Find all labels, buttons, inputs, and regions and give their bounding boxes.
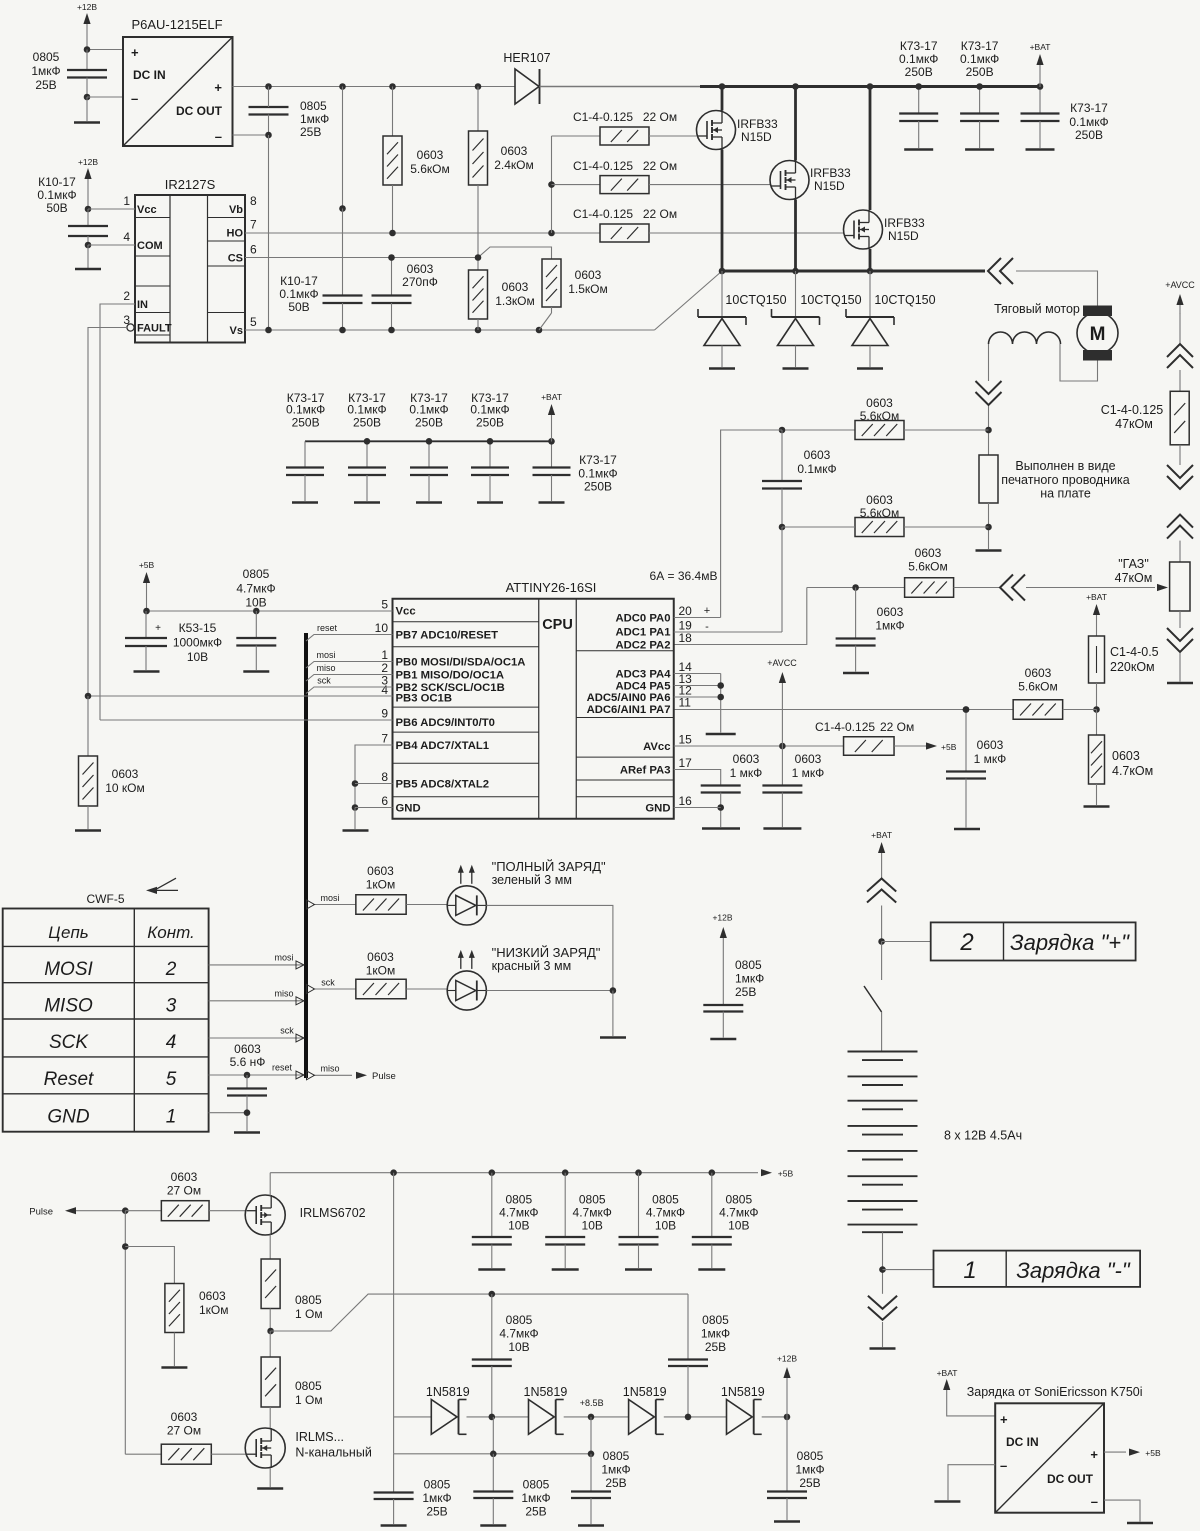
svg-text:+12В: +12В: [77, 2, 97, 12]
wire pin20 +: [674, 617, 721, 619]
svg-text:–: –: [215, 129, 222, 144]
svg-text:0.1мкФ: 0.1мкФ: [409, 403, 448, 417]
FAULT output circle: [127, 324, 134, 331]
svg-text:1мкФ: 1мкФ: [31, 64, 60, 78]
svg-text:0603: 0603: [804, 448, 831, 462]
wire charger in+: [947, 1395, 996, 1416]
ground (rail cap #3): [1026, 148, 1055, 151]
svg-text:-: -: [705, 621, 709, 633]
shunt resistor (pcb trace): [979, 455, 1130, 503]
wire pot down: [1179, 611, 1181, 628]
node LED gnd: [610, 987, 617, 994]
capacitor K73-17 0.1uF 250V (bank #2): [347, 391, 386, 501]
node Vcc arrow: [143, 608, 150, 615]
wire LED2 to gnd: [486, 990, 613, 992]
wire Q4 source up: [269, 1173, 271, 1196]
svg-text:10CTQ150: 10CTQ150: [800, 293, 861, 307]
wire Vs diagonal to source bus: [655, 271, 723, 330]
wire throttle pot: [1026, 587, 1155, 589]
ground (PA tie): [706, 733, 736, 736]
ground (bank #5): [539, 501, 565, 504]
svg-text:0603: 0603: [977, 738, 1004, 752]
svg-text:1мкФ: 1мкФ: [300, 112, 329, 126]
potentiometer GAZ 47kOhm body: [1170, 562, 1190, 611]
wire pump drive: [271, 1294, 688, 1331]
svg-text:MISO: MISO: [44, 996, 93, 1017]
wire PB3 net: [88, 695, 393, 697]
power +12V (pump out): [777, 1354, 797, 1417]
svg-text:8: 8: [250, 194, 257, 208]
node DC OUT- cap: [265, 132, 272, 139]
connector CWF-5 table: [3, 909, 209, 1132]
svg-text:mosi: mosi: [316, 650, 335, 660]
svg-text:6А = 36.4мВ: 6А = 36.4мВ: [650, 569, 718, 583]
svg-text:0603: 0603: [915, 546, 942, 560]
node divider: [1093, 706, 1100, 713]
diode HER107: [503, 51, 550, 104]
svg-text:22 Ом: 22 Ом: [643, 159, 677, 173]
capacitor 0805 1uF 25V (smooth C): [571, 1449, 631, 1524]
capacitor K73-17 0.1uF 250V (rail #3): [1021, 87, 1060, 149]
node Vs bootstrap: [339, 327, 346, 334]
wire D1D2 tap: [492, 1417, 494, 1454]
capacitor 0805 1uF 25V (pump2): [668, 1294, 730, 1417]
svg-text:1: 1: [381, 648, 388, 662]
svg-text:0.1мкФ: 0.1мкФ: [1069, 115, 1108, 129]
capacitor 0603 1uF (throttle): [836, 588, 905, 672]
svg-text:27 Ом: 27 Ом: [167, 1184, 201, 1198]
svg-text:0.1мкФ: 0.1мкФ: [279, 287, 318, 301]
resistor C1-4-0.125 47kOhm: [1101, 391, 1189, 445]
svg-text:0603: 0603: [199, 1289, 226, 1303]
svg-text:0805: 0805: [797, 1449, 824, 1463]
node D1-D2: [489, 1414, 496, 1421]
svg-text:0603: 0603: [733, 752, 760, 766]
arrow Pulse in (bottom): [29, 1207, 125, 1218]
wire +12V to DC IN+: [87, 49, 123, 51]
LED green (full charge): [447, 865, 486, 925]
DC-DC converter (charger K750i): [995, 1403, 1104, 1512]
svg-text:+12В: +12В: [712, 913, 732, 923]
node +12V out: [784, 1414, 791, 1421]
label plus pin20: [704, 605, 710, 617]
wire xtal tie: [355, 745, 393, 808]
svg-text:1кОм: 1кОм: [199, 1303, 229, 1317]
svg-text:1.3кОм: 1.3кОм: [495, 294, 535, 308]
svg-text:IRFB33: IRFB33: [884, 216, 925, 230]
node pulse: [122, 1207, 129, 1214]
wire Q3 source: [869, 249, 872, 271]
diode D2 10CTQ150: [772, 271, 862, 367]
svg-text:5: 5: [166, 1069, 177, 1090]
resistor 0603 1.5kOhm: [539, 259, 608, 330]
resistor 0603 2.4kOhm: [469, 87, 534, 258]
transistor Q5 IRLMS N-channel: [245, 1428, 372, 1468]
wire reset to bus: [306, 623, 393, 641]
wire sense+ to pin20: [721, 430, 782, 618]
svg-text:1: 1: [963, 1257, 976, 1284]
svg-text:К73-17: К73-17: [579, 453, 617, 467]
ground (D1): [709, 367, 735, 370]
wire D1-D2: [467, 1416, 529, 1418]
svg-text:+: +: [1090, 1447, 1098, 1462]
transistor Q1 IRFB33N15D: [697, 111, 779, 150]
capacitor 0603 5.6nF (reset): [227, 1042, 267, 1131]
svg-text:"ПОЛНЫЙ ЗАРЯД": "ПОЛНЫЙ ЗАРЯД": [492, 859, 606, 874]
svg-text:С1-4-0.125: С1-4-0.125: [573, 207, 633, 221]
svg-text:1: 1: [166, 1107, 177, 1128]
resistor 0805 1 Ohm (upper): [261, 1235, 322, 1332]
svg-text:0603: 0603: [501, 144, 528, 158]
svg-text:5: 5: [381, 598, 388, 612]
svg-text:+: +: [214, 80, 222, 95]
svg-text:M: M: [1090, 324, 1106, 345]
node Vcc: [85, 206, 92, 213]
svg-text:0603: 0603: [171, 1410, 198, 1424]
svg-text:0603: 0603: [866, 396, 893, 410]
wire to charge+ box: [882, 941, 931, 943]
svg-text:3: 3: [123, 313, 130, 327]
resistor C1-4-0.5 220kOhm: [1089, 628, 1159, 710]
wire diode cathode to MOSFET rail: [540, 86, 723, 88]
svg-text:"ГАЗ": "ГАЗ": [1118, 557, 1149, 571]
wire motor return: [1060, 344, 1098, 381]
node bank #3: [426, 438, 433, 445]
svg-text:"НИЗКИЙ ЗАРЯД": "НИЗКИЙ ЗАРЯД": [492, 945, 601, 960]
svg-text:GND: GND: [396, 803, 421, 815]
ground (throttle cap): [843, 672, 869, 675]
svg-text:0603: 0603: [171, 1170, 198, 1184]
svg-text:0805: 0805: [505, 1193, 532, 1207]
label GAZ pot: [1115, 557, 1153, 585]
ground (smooth A): [381, 1524, 407, 1527]
capacitor 0805 4.7uF 10V (#4): [692, 1173, 759, 1268]
node charge+: [878, 938, 885, 945]
svg-text:+BAT: +BAT: [541, 392, 562, 402]
capacitor 0805 1uF 25V (12V out): [767, 1417, 825, 1520]
capacitor 0603 270pF: [372, 258, 438, 331]
svg-text:Зарядка "-": Зарядка "-": [1016, 1258, 1131, 1283]
svg-text:0805: 0805: [33, 50, 60, 64]
svg-text:0805: 0805: [652, 1193, 679, 1207]
svg-text:0603: 0603: [877, 605, 904, 619]
wire pin16 gnd: [674, 807, 721, 809]
svg-text:4: 4: [381, 683, 388, 697]
resistor 0603 5.6kOhm (sense-): [782, 493, 989, 537]
node rail Q2: [792, 83, 799, 90]
node rail Q1: [719, 83, 726, 90]
svg-text:С1-4-0.5: С1-4-0.5: [1110, 645, 1159, 659]
svg-text:SCK: SCK: [49, 1032, 89, 1053]
svg-text:1N5819: 1N5819: [524, 1385, 568, 1399]
node DC IN- junction: [84, 94, 91, 101]
ground (reset cap): [234, 1131, 260, 1134]
wire rail to Vb (vertical): [342, 87, 344, 209]
label low charge: [492, 945, 601, 973]
svg-text:PB5 ADC8/XTAL2: PB5 ADC8/XTAL2: [396, 779, 490, 791]
node gnd cap: [244, 1109, 251, 1116]
svg-text:25В: 25В: [735, 985, 756, 999]
power +BAT (220k): [1086, 592, 1107, 628]
wire sense- to pin19: [781, 527, 783, 632]
ground (1k): [161, 1366, 187, 1369]
svg-text:К10-17: К10-17: [38, 175, 76, 189]
arrow into pot: [1157, 584, 1168, 591]
capacitor K73-17 0.1uF 250V (bank #4): [470, 391, 509, 501]
power +AVCC (pot top): [1165, 280, 1195, 314]
svg-text:50В: 50В: [46, 201, 67, 215]
svg-text:25В: 25В: [426, 1505, 447, 1519]
svg-text:2: 2: [123, 289, 130, 303]
svg-text:+AVCC: +AVCC: [767, 658, 797, 668]
capacitor K73-17 0.1uF 250V (bank #3): [409, 391, 448, 501]
wire Q2 drain: [794, 87, 797, 161]
svg-text:10В: 10В: [728, 1219, 749, 1233]
svg-text:10CTQ150: 10CTQ150: [874, 293, 935, 307]
wire Q1 source: [721, 150, 724, 272]
capacitor 0805 1uF 25V (+12 aux): [703, 945, 764, 1038]
svg-text:0.1мкФ: 0.1мкФ: [960, 52, 999, 66]
svg-text:mosi: mosi: [320, 893, 339, 903]
svg-text:Зарядка от SoniEricsson K750i: Зарядка от SoniEricsson K750i: [967, 1385, 1143, 1399]
node PB3 fault: [85, 693, 92, 700]
svg-text:25В: 25В: [300, 125, 321, 139]
svg-text:0.1мкФ: 0.1мкФ: [797, 462, 836, 476]
node 5V cap #2: [562, 1169, 569, 1176]
wire to ground: [86, 97, 88, 121]
ground (AVcc cap): [763, 827, 801, 830]
svg-text:Vcc: Vcc: [137, 204, 157, 216]
svg-text:ADC3 PA4: ADC3 PA4: [615, 669, 671, 681]
node pump rail cap: [489, 1291, 496, 1298]
node rail cap #2: [976, 83, 983, 90]
node Vs 270pF: [388, 327, 395, 334]
svg-text:250В: 250В: [353, 416, 381, 430]
node rail cap #3: [1037, 83, 1044, 90]
svg-text:Vcc: Vcc: [396, 606, 416, 618]
svg-text:HO: HO: [227, 228, 244, 240]
svg-text:4.7мкФ: 4.7мкФ: [719, 1206, 758, 1220]
svg-text:С1-4-0.125: С1-4-0.125: [1101, 403, 1164, 417]
resistor 0603 1.3kOhm: [469, 258, 535, 331]
svg-text:sck: sck: [321, 978, 335, 988]
capacitor K73-17 0.1uF 250V (rail #1): [899, 39, 938, 148]
wire Vs pin5: [245, 329, 655, 331]
svg-text:IRLMS6702: IRLMS6702: [300, 1206, 366, 1220]
svg-text:–: –: [1091, 1494, 1098, 1509]
ground (smooth B): [480, 1524, 506, 1527]
svg-text:0603: 0603: [367, 864, 394, 878]
svg-text:+: +: [131, 45, 139, 60]
svg-text:0603: 0603: [795, 752, 822, 766]
connector pad charge-: [934, 1251, 1141, 1287]
capacitor 0805 1uF 25V (DC IN): [31, 50, 107, 98]
node HO 5.6k: [389, 230, 396, 237]
svg-text:4.7мкФ: 4.7мкФ: [646, 1206, 685, 1220]
wire GND row: [209, 1112, 247, 1114]
capacitor 0805 1uF 25V (smooth B): [473, 1454, 550, 1524]
svg-text:47кОм: 47кОм: [1115, 417, 1153, 431]
node rail at 5.6k: [389, 83, 396, 90]
wire bus to Pulse: [307, 1064, 353, 1080]
node CS 2.4k: [475, 254, 482, 261]
node pulse 1k: [122, 1243, 129, 1250]
wire to shunt: [988, 406, 990, 455]
connector pad charge+: [931, 922, 1136, 960]
svg-text:22 Ом: 22 Ом: [643, 110, 677, 124]
svg-text:0805: 0805: [295, 1293, 322, 1307]
svg-text:–: –: [1000, 1458, 1007, 1473]
svg-text:IR2127S: IR2127S: [165, 177, 216, 192]
svg-text:10CTQ150: 10CTQ150: [725, 293, 786, 307]
wire PB6 net: [100, 719, 393, 721]
svg-text:С1-4-0.125: С1-4-0.125: [573, 159, 633, 173]
svg-text:ADC2 PA2: ADC2 PA2: [615, 640, 670, 652]
wire D1 anode: [394, 1416, 432, 1418]
resistor 0603 4.7kOhm (divider): [1089, 710, 1154, 806]
ground (D2): [783, 367, 809, 370]
svg-text:250В: 250В: [292, 416, 320, 430]
svg-text:8 x 12В 4.5Ач: 8 x 12В 4.5Ач: [944, 1129, 1022, 1143]
node HO 22R tap: [548, 230, 555, 237]
node 5V cap #4: [709, 1169, 716, 1176]
svg-text:Конт.: Конт.: [147, 923, 195, 942]
svg-text:зеленый 3 мм: зеленый 3 мм: [492, 873, 572, 887]
svg-text:печатного проводника: печатного проводника: [1001, 473, 1130, 487]
ground (divider): [1084, 805, 1110, 808]
svg-text:10В: 10В: [245, 596, 266, 610]
label minus pin19: [705, 621, 709, 633]
node 5V cap #3: [635, 1169, 642, 1176]
capacitor K53-15 1000uF 10V: [125, 611, 222, 670]
svg-text:ADC4 PA5: ADC4 PA5: [615, 681, 670, 693]
wire HO pin7: [245, 232, 600, 234]
svg-text:17: 17: [679, 756, 693, 770]
arrow +5V (AVcc): [925, 742, 957, 752]
node throttle cap: [852, 584, 859, 591]
power +12V (top-left): [77, 2, 97, 49]
svg-text:250В: 250В: [905, 65, 933, 79]
wire bat top: [881, 864, 883, 879]
wire charger in-: [948, 1465, 995, 1500]
node bus Q3: [867, 268, 874, 275]
svg-text:PB1 MISO/DO/OC1A: PB1 MISO/DO/OC1A: [396, 670, 505, 682]
svg-text:PB7 ADC10/RESET: PB7 ADC10/RESET: [396, 630, 499, 642]
svg-text:miso: miso: [320, 1064, 339, 1074]
svg-text:0805: 0805: [603, 1449, 630, 1463]
svg-text:4.7мкФ: 4.7мкФ: [499, 1327, 538, 1341]
svg-text:4.7кОм: 4.7кОм: [1112, 764, 1153, 778]
motor M: [1077, 306, 1118, 361]
node sense+ cap: [779, 427, 786, 434]
svg-text:0603: 0603: [866, 493, 893, 507]
node 5V feed: [390, 1169, 397, 1176]
svg-text:3: 3: [166, 996, 177, 1017]
svg-text:1 Ом: 1 Ом: [295, 1307, 323, 1321]
resistor 0603 10kOhm: [79, 696, 145, 829]
svg-text:PB3 OC1B: PB3 OC1B: [396, 693, 453, 705]
node smooth B: [490, 1451, 497, 1458]
svg-text:25В: 25В: [525, 1505, 546, 1519]
svg-text:GND: GND: [47, 1107, 90, 1128]
svg-text:HER107: HER107: [503, 51, 550, 65]
svg-text:4.7мкФ: 4.7мкФ: [499, 1206, 538, 1220]
node pump drive: [267, 1328, 274, 1335]
wire inductor down: [988, 344, 990, 381]
svg-text:0.1мкФ: 0.1мкФ: [37, 188, 76, 202]
svg-text:0603: 0603: [1025, 666, 1052, 680]
svg-text:+12В: +12В: [78, 157, 98, 167]
ground (bank #2): [354, 501, 380, 504]
wire pot to ground: [1179, 653, 1181, 682]
svg-text:0805: 0805: [702, 1313, 729, 1327]
svg-text:COM: COM: [137, 240, 163, 252]
svg-text:CPU: CPU: [542, 617, 573, 633]
label bank cap5: [578, 453, 617, 494]
svg-text:sck: sck: [280, 1026, 294, 1036]
svg-text:PB0 MOSI/DI/SDA/OC1A: PB0 MOSI/DI/SDA/OC1A: [396, 657, 526, 669]
power +BAT (bank): [541, 392, 562, 442]
wire to pot body: [1179, 541, 1181, 562]
svg-text:ADC5/AIN0 PA6: ADC5/AIN0 PA6: [587, 692, 671, 704]
label shunt voltage: [650, 569, 718, 583]
svg-text:0603: 0603: [1112, 749, 1140, 763]
capacitor 0603 0.1uF (sense): [762, 430, 837, 527]
resistor C1-4-0.125 22 Ohm (AVcc): [815, 720, 925, 755]
ground (bank #3): [416, 501, 442, 504]
ground (12V out cap): [774, 1520, 800, 1523]
svg-text:2.4кОм: 2.4кОм: [494, 158, 534, 172]
svg-text:+BAT: +BAT: [871, 830, 892, 840]
node pin11 net: [963, 706, 970, 713]
connector chevrons (bat+): [867, 879, 896, 903]
wire D3-D4: [664, 1416, 727, 1418]
svg-text:0.1мкФ: 0.1мкФ: [470, 403, 509, 417]
node charge-: [879, 1266, 886, 1273]
svg-text:0603: 0603: [417, 148, 444, 162]
svg-text:1N5819: 1N5819: [721, 1385, 765, 1399]
switch (battery): [864, 942, 882, 1052]
inductor (motor): [989, 332, 1061, 344]
svg-text:ATTINY26-16SI: ATTINY26-16SI: [506, 580, 597, 595]
diode D3 10CTQ150: [846, 271, 936, 367]
wire bat bottom: [882, 1232, 884, 1294]
svg-text:9: 9: [381, 707, 388, 721]
wire LED1 to gnd: [486, 905, 613, 991]
wire mosi to bus: [306, 650, 393, 668]
ground (5V cap #4): [698, 1268, 725, 1271]
DC-DC converter U1 P6AU-1215ELF: [123, 17, 233, 146]
svg-text:25В: 25В: [799, 1476, 820, 1490]
ground (LEDs): [600, 1036, 626, 1039]
LED red (low charge): [447, 950, 486, 1010]
svg-text:+5В: +5В: [941, 742, 957, 752]
connector chevrons (bat-): [868, 1296, 897, 1320]
node sense- cap: [779, 524, 786, 531]
resistor C1-4-0.125 22 Ohm (gate3): [573, 207, 844, 242]
svg-text:+BAT: +BAT: [937, 1368, 958, 1378]
capacitor 0805 4.7uF 10V (#2): [545, 1173, 612, 1268]
wire +5V rail: [270, 1172, 758, 1174]
wire +BAT rail (thick): [700, 85, 1040, 88]
node COM: [85, 242, 92, 249]
diode D1 10CTQ150: [698, 271, 787, 367]
svg-text:270пФ: 270пФ: [402, 275, 438, 289]
svg-text:5.6кОм: 5.6кОм: [908, 560, 948, 574]
ground (rail cap #2): [965, 148, 994, 151]
power +5V (Vcc): [139, 560, 155, 611]
svg-text:К53-15: К53-15: [179, 621, 217, 635]
